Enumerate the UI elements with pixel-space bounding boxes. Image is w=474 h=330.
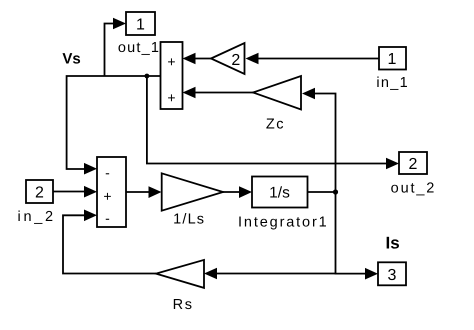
value 1 of in_1 bbox=[388, 51, 397, 68]
svg-text:-: - bbox=[105, 165, 110, 181]
label in_2 bbox=[18, 209, 54, 225]
wire inport in_1 to gain 2 bbox=[258, 58, 380, 60]
svg-text:2: 2 bbox=[231, 52, 240, 69]
wire integrator output to Is net bbox=[308, 191, 336, 193]
arrowhead into outport 3 bbox=[365, 268, 378, 280]
node label Vs bbox=[62, 51, 80, 68]
label 1/Ls bbox=[173, 212, 204, 228]
wire inport in_2 to sum2 input 2 bbox=[53, 191, 85, 193]
gain block 1/Ls bbox=[162, 173, 223, 210]
svg-text:2: 2 bbox=[35, 184, 44, 201]
wire Is branch left to gain Rs input bbox=[217, 273, 336, 275]
svg-text:1: 1 bbox=[136, 16, 145, 33]
wire sum2 output to gain 1/Ls bbox=[126, 191, 150, 193]
outport 3 block bbox=[378, 262, 406, 285]
svg-text:out_1: out_1 bbox=[118, 40, 159, 56]
junction dot Vs net bbox=[145, 74, 150, 79]
sign - sum2 input 3 bbox=[105, 210, 110, 226]
label Zc bbox=[266, 117, 284, 133]
integrator block Integrator1 bbox=[252, 177, 308, 208]
svg-text:Zc: Zc bbox=[266, 117, 284, 133]
value 2 of in_2 bbox=[35, 184, 44, 201]
label Integrator1 bbox=[238, 215, 327, 231]
wire branch up to outport out_1 bbox=[105, 24, 115, 77]
arrowhead into gain Rs bbox=[204, 268, 217, 280]
arrowhead into sum2 input 2 bbox=[84, 186, 97, 198]
label Rs bbox=[173, 297, 192, 313]
wire branch from junction down to outport out_2 bbox=[147, 76, 387, 164]
svg-text:-: - bbox=[105, 210, 110, 226]
svg-text:+: + bbox=[167, 90, 175, 106]
arrowhead into gain 1/Ls bbox=[149, 186, 162, 198]
svg-text:1/s: 1/s bbox=[269, 184, 290, 201]
label in_1 bbox=[376, 75, 407, 91]
value 1 of out_1 bbox=[136, 16, 145, 33]
gain block Zc bbox=[253, 76, 301, 110]
svg-text:out_2: out_2 bbox=[391, 181, 435, 197]
svg-text:1/Ls: 1/Ls bbox=[173, 212, 204, 228]
sign - sum2 input 1 bbox=[105, 165, 110, 181]
svg-text:3: 3 bbox=[388, 267, 397, 284]
svg-text:1: 1 bbox=[388, 51, 397, 68]
arrowhead into sum1 input 2 bbox=[183, 87, 196, 99]
label out_1 bbox=[118, 40, 159, 56]
svg-text:in_2: in_2 bbox=[18, 209, 54, 225]
value 1/s of integrator bbox=[269, 184, 290, 201]
arrowhead into gain 2 bbox=[246, 53, 259, 65]
svg-text:Rs: Rs bbox=[173, 297, 192, 313]
inport in_2 block bbox=[26, 180, 53, 203]
sign + sum1 input 1 bbox=[167, 54, 175, 70]
wire gain 2 output to sum1 input 1 bbox=[195, 58, 212, 60]
gain block 2 bbox=[211, 43, 245, 74]
svg-text:+: + bbox=[103, 188, 111, 204]
arrowhead into sum2 input 3 bbox=[84, 210, 97, 222]
sign + sum2 input 2 bbox=[103, 188, 111, 204]
svg-text:Integrator1: Integrator1 bbox=[238, 215, 327, 231]
svg-text:in_1: in_1 bbox=[376, 75, 407, 91]
wire gain Rs output to sum2 input 3 bbox=[63, 215, 156, 273]
wire gain 1/Ls output to integrator bbox=[223, 191, 240, 193]
sum block Sum2 bbox=[97, 157, 126, 227]
svg-text:Is: Is bbox=[386, 234, 400, 253]
sum block Sum1 bbox=[161, 42, 183, 109]
arrowhead into integrator bbox=[239, 186, 252, 198]
arrowhead into sum2 input 1 bbox=[84, 163, 97, 175]
inport in_1 block bbox=[379, 47, 406, 70]
svg-text:2: 2 bbox=[409, 156, 418, 173]
sign + sum1 input 2 bbox=[167, 90, 175, 106]
arrowhead into sum1 input 1 bbox=[183, 53, 196, 65]
outport out_2 block bbox=[399, 152, 427, 174]
svg-text:Vs: Vs bbox=[62, 51, 80, 68]
wire gain Zc output to sum1 input 2 bbox=[195, 92, 254, 94]
gain block Rs bbox=[156, 260, 204, 288]
wire Is net: vertical from Zc input corner down to outport 3 row bbox=[314, 94, 366, 274]
junction dot Is net bbox=[333, 189, 338, 194]
node label Is bbox=[386, 234, 400, 253]
value 2 of gain bbox=[231, 52, 240, 69]
svg-text:+: + bbox=[167, 54, 175, 70]
outport out_1 block bbox=[126, 12, 155, 35]
arrowhead into gain Zc bbox=[302, 88, 315, 100]
arrowhead into out_2 bbox=[386, 158, 399, 170]
value 3 of outport 3 bbox=[388, 267, 397, 284]
label out_2 bbox=[391, 181, 435, 197]
wire sum1 output to sum2 input 1 (net Vs) bbox=[67, 76, 161, 169]
value 2 of out_2 bbox=[409, 156, 418, 173]
arrowhead into out_1 bbox=[113, 18, 126, 30]
